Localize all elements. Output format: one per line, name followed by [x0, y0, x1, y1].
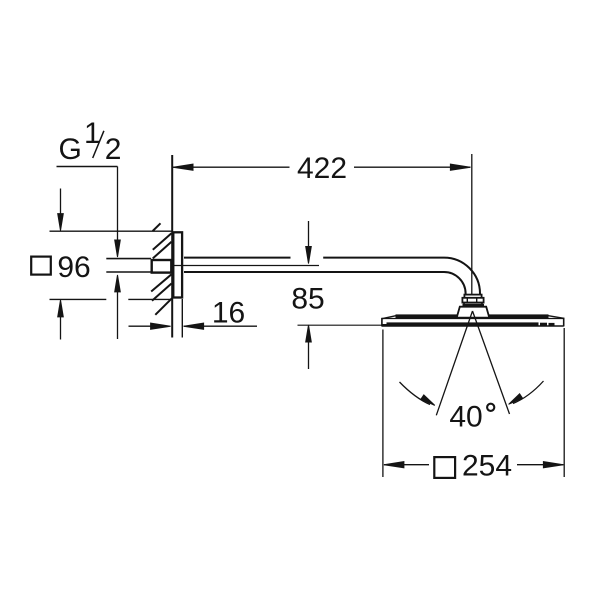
svg-text:2: 2 — [105, 133, 122, 166]
svg-text:40: 40 — [449, 401, 482, 434]
svg-text:85: 85 — [291, 282, 324, 315]
svg-text:422: 422 — [297, 152, 347, 185]
svg-text:G: G — [59, 133, 82, 166]
svg-text:16: 16 — [212, 297, 245, 330]
svg-text:254: 254 — [462, 450, 512, 483]
svg-text:96: 96 — [57, 251, 90, 284]
